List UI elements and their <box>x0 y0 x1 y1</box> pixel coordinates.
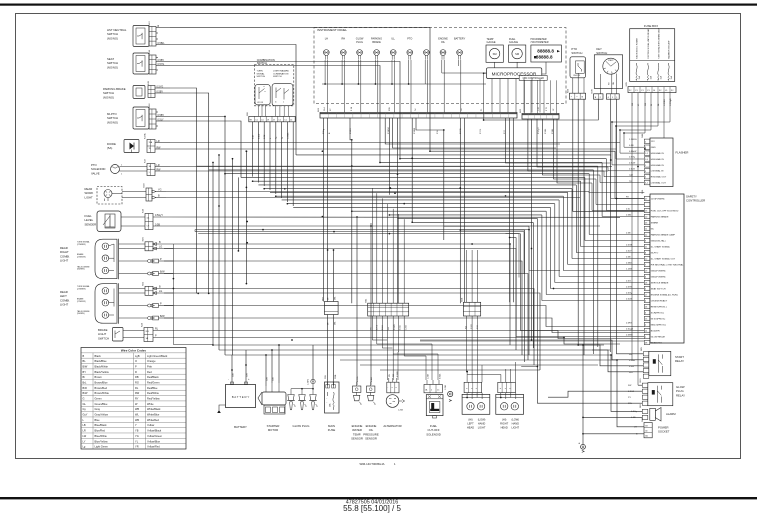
svg-text:YG: YG <box>135 434 139 438</box>
svg-text:J9: J9 <box>267 119 269 121</box>
wire battery plus drop <box>245 350 247 380</box>
indicator lamp ILL <box>390 38 396 60</box>
wire ground bus lines <box>195 230 560 278</box>
svg-text:N17A: N17A <box>144 133 147 139</box>
wire N01 drop 412 <box>411 118 413 222</box>
wire rear pto row <box>420 340 644 342</box>
svg-text:0.5B: 0.5B <box>629 145 634 147</box>
fuel gauge <box>509 38 526 62</box>
connector N01 (instrument panel harness) <box>318 107 517 118</box>
svg-text:LIGHT/HAZARD: LIGHT/HAZARD <box>273 70 289 73</box>
wire fuel gauge to microprocessor <box>516 62 518 68</box>
svg-text:1.25B: 1.25B <box>398 410 404 412</box>
wire N01 drop 513 <box>512 118 514 302</box>
svg-text:NC: NC <box>651 228 655 230</box>
svg-text:GND(POWER): GND(POWER) <box>651 270 666 272</box>
wire combo drop 2 <box>257 122 259 183</box>
svg-text:-: - <box>228 378 229 381</box>
fuel level sender B1 <box>85 208 173 231</box>
bottom border rule <box>0 497 757 499</box>
diode D1 (5A) <box>107 133 170 153</box>
wire pto solenoid RW row <box>170 170 608 172</box>
svg-text:12V(POWER): 12V(POWER) <box>651 198 665 200</box>
svg-text:RW: RW <box>388 327 390 330</box>
battery ground <box>217 405 225 413</box>
svg-text:LR: LR <box>83 429 86 433</box>
svg-text:(5W/8W): (5W/8W) <box>77 313 85 315</box>
svg-text:0.5WL: 0.5WL <box>439 374 441 379</box>
wire feed glow relay pin2 <box>521 366 537 368</box>
svg-text:RELAY: RELAY <box>676 393 685 397</box>
svg-text:C1: C1 <box>284 119 286 121</box>
svg-text:0.5WL: 0.5WL <box>400 325 402 330</box>
svg-text:H/SIGNAL IN: H/SIGNAL IN <box>651 152 664 155</box>
svg-text:Brown/White: Brown/White <box>95 391 110 395</box>
svg-text:FUEL CUT-OFF SOLENOID: FUEL CUT-OFF SOLENOID <box>651 210 679 212</box>
svg-text:1.25RL: 1.25RL <box>308 379 310 385</box>
rear work light E1 <box>85 183 167 204</box>
svg-text:2: 2 <box>431 389 432 391</box>
svg-text:RG: RG <box>135 380 139 384</box>
svg-text:GND(SIG-TAL): GND(SIG-TAL) <box>651 239 666 242</box>
svg-text:ALARM: ALARM <box>666 412 676 416</box>
power socket X1 <box>634 417 670 438</box>
svg-text:0.5GyY: 0.5GyY <box>538 127 540 134</box>
indicator lamp BATTERY <box>454 38 466 60</box>
svg-text:Br: Br <box>83 375 86 379</box>
svg-text:(21W/5W): (21W/5W) <box>77 301 86 303</box>
svg-text:SM: SM <box>493 52 497 56</box>
svg-text:LR: LR <box>157 164 160 167</box>
wire fuel sender sig row <box>172 216 620 218</box>
svg-text:0.5YG: 0.5YG <box>157 85 164 88</box>
svg-text:B: B <box>83 354 85 358</box>
wire water temp drop <box>356 330 358 385</box>
svg-text:L/SIGNAL OUT: L/SIGNAL OUT <box>651 182 667 185</box>
svg-text:GAUGE: GAUGE <box>509 41 518 44</box>
svg-text:ILL START SIGNAL OUT: ILL START SIGNAL OUT <box>651 257 676 260</box>
connector N02 <box>520 108 559 119</box>
svg-text:HEAD: HEAD <box>467 425 474 429</box>
wire bottom row 365 <box>360 364 598 366</box>
svg-text:Light Green/Black: Light Green/Black <box>147 354 168 358</box>
svg-text:(LOW): (LOW) <box>478 418 486 422</box>
svg-text:(LOW): (LOW) <box>511 418 519 422</box>
svg-text:(21W/8W): (21W/8W) <box>77 288 86 290</box>
wire N01 drop 465 <box>464 118 466 302</box>
wire bundle column 219 lower <box>218 155 220 350</box>
wire combi right row BW <box>164 274 528 361</box>
svg-text:(NO/NO): (NO/NO) <box>103 95 114 99</box>
svg-text:LIGHT: LIGHT <box>60 303 69 307</box>
wire pto switch drop 2 <box>577 99 579 345</box>
wire feed glow relay pin3 <box>537 367 642 404</box>
svg-text:Yellow: Yellow <box>147 423 154 427</box>
svg-text:HAND: HAND <box>512 421 519 425</box>
svg-text:FLASHER: FLASHER <box>676 151 689 155</box>
svg-text:SIGNAL: SIGNAL <box>257 72 266 75</box>
svg-text:LIGHT: LIGHT <box>511 425 519 429</box>
wire temp gauge to microprocessor <box>494 62 496 68</box>
hourmeter tachometer display <box>531 38 562 62</box>
svg-text:SENSOR: SENSOR <box>365 437 377 441</box>
svg-text:YR: YR <box>135 445 139 449</box>
svg-text:ALTERNATOR: ALTERNATOR <box>383 424 401 428</box>
svg-text:B A T T E R Y: B A T T E R Y <box>232 395 250 399</box>
svg-text:Green: Green <box>95 397 103 401</box>
wire combi left row BW <box>164 318 644 333</box>
wire N01 drop 397 <box>397 118 399 303</box>
svg-text:CRUISE READY: CRUISE READY <box>651 299 668 302</box>
wire combi right row P <box>164 261 522 355</box>
turn signal switch S9a <box>255 71 270 105</box>
wire main fuse drop 2 <box>333 315 335 386</box>
svg-text:B/W: B/W <box>83 364 88 368</box>
wire N01 drop 385 <box>385 118 560 144</box>
inline connector N04 <box>366 298 409 330</box>
svg-text:(NO/NO): (NO/NO) <box>107 120 118 124</box>
wire bundle column 246 lower <box>245 151 247 283</box>
svg-text:0.5RL: 0.5RL <box>545 128 547 134</box>
wire brake switch P row <box>170 338 620 345</box>
svg-text:HAZARD/FUSE LAMP: HAZARD/FUSE LAMP <box>668 40 671 59</box>
svg-text:SENDER: SENDER <box>85 222 97 226</box>
wire glow plug feed <box>312 345 314 379</box>
svg-text:OIL: OIL <box>441 41 446 44</box>
combination switch assembly S9 (dashed) <box>254 58 293 106</box>
wire pto switch drop 3 <box>583 99 585 355</box>
svg-text:2 1B: 2 1B <box>351 106 353 111</box>
svg-text:Green/Blue: Green/Blue <box>95 402 108 406</box>
wire HST neutral B run <box>170 28 430 152</box>
lamp feed wires inside panel <box>328 60 487 113</box>
svg-text:LY: LY <box>83 439 86 443</box>
wire seat switch YG run <box>170 66 380 163</box>
svg-text:0.5YG: 0.5YG <box>357 376 359 382</box>
svg-text:0.5RY: 0.5RY <box>626 323 633 325</box>
svg-text:C1: C1 <box>279 119 281 121</box>
svg-text:0.5YL: 0.5YL <box>480 128 482 134</box>
wire ground bus B to socket <box>583 433 644 435</box>
rear left combi light E3 <box>60 281 173 324</box>
svg-text:RW: RW <box>393 374 395 377</box>
svg-text:0.5BY: 0.5BY <box>158 59 165 62</box>
wire flasher pin feeds <box>592 167 644 211</box>
wire N04 lower fanout <box>372 316 438 380</box>
wire combi right row LG <box>164 249 516 351</box>
indicator lamp PTO <box>407 38 413 60</box>
svg-text:BATTERY: BATTERY <box>234 425 247 429</box>
switch S1 HST NEUTRAL SWITCH (NO/NO) <box>107 21 170 47</box>
svg-text:30R: 30R <box>266 377 268 381</box>
wire main fuse drop 1 <box>327 315 329 386</box>
svg-text:LgB: LgB <box>135 354 140 358</box>
svg-text:RL: RL <box>135 386 139 390</box>
wire bundle column 213 lower <box>212 162 214 345</box>
svg-text:Blue/Black: Blue/Black <box>95 423 108 427</box>
wire N02 drop 528 <box>528 119 604 171</box>
temp gauge <box>486 38 503 62</box>
svg-text:0.5Gy: 0.5Gy <box>629 157 636 159</box>
svg-text:SOCKET: SOCKET <box>658 430 670 434</box>
wire main fuse upper 2 <box>333 250 335 302</box>
engine oil pressure switch S8 <box>363 376 379 440</box>
wire bundle column 208 lower <box>208 170 210 293</box>
svg-text:SOLENOID/IGC POWER: SOLENOID/IGC POWER <box>637 38 639 59</box>
wire combo drop 4 <box>269 122 271 190</box>
wire fuse f2 to glow relay <box>638 384 642 386</box>
svg-text:GL: GL <box>83 402 87 406</box>
fuel cut-off solenoid Y1 <box>424 373 453 436</box>
svg-text:BrR: BrR <box>83 386 88 390</box>
svg-text:PLUG: PLUG <box>356 41 363 44</box>
svg-text:Yellow/Black: Yellow/Black <box>147 429 162 433</box>
wire combo drop 3 <box>263 122 265 186</box>
svg-text:R/SIGNAL OUT: R/SIGNAL OUT <box>651 176 667 179</box>
start relay K2 <box>629 346 684 378</box>
wire N04 upper feeds <box>372 188 404 303</box>
wire feed alarm Gy <box>611 355 642 411</box>
wire diode RW row <box>170 148 616 150</box>
glow plugs R1-R3 <box>287 379 317 428</box>
svg-text:SWITCH: SWITCH <box>571 51 582 55</box>
svg-text:1.25B: 1.25B <box>445 384 447 390</box>
svg-text:Red/White: Red/White <box>147 391 159 395</box>
safety controller U1 <box>642 189 705 345</box>
connector N01 pin labels <box>324 106 555 111</box>
svg-text:3RL: 3RL <box>335 322 337 325</box>
left head light E4 <box>462 382 490 429</box>
wire mi-pto LY run <box>170 121 241 177</box>
svg-text:R: R <box>135 370 137 374</box>
svg-text:0.9BrW: 0.9BrW <box>629 150 637 153</box>
wire parking brake YG run <box>170 88 197 166</box>
svg-text:LG: LG <box>159 290 162 293</box>
wire key switch ST drop <box>615 99 643 354</box>
wire pto solenoid LR row <box>170 166 612 168</box>
svg-text:GAUGE: GAUGE <box>487 41 496 44</box>
svg-text:LIGHT: LIGHT <box>60 259 69 263</box>
svg-text:0.5RW: 0.5RW <box>414 128 416 134</box>
svg-text:Red/Blue: Red/Blue <box>147 386 158 390</box>
svg-text:Red/Green: Red/Green <box>147 380 160 384</box>
svg-text:12V: 12V <box>651 141 655 143</box>
inline connector N03 <box>322 296 338 325</box>
svg-text:YG: YG <box>158 189 162 192</box>
indicator lamp ENGOIL <box>438 38 448 60</box>
safety controller wire labels <box>626 197 633 337</box>
wire combi right row B <box>173 244 510 345</box>
svg-text:(5W/8W): (5W/8W) <box>77 269 85 271</box>
svg-text:LR: LR <box>157 140 160 143</box>
svg-text:P: P <box>135 364 137 368</box>
instrument panel enclosure (dashed) <box>314 28 566 104</box>
svg-text:HEAD: HEAD <box>501 425 508 429</box>
svg-text:88888.8: 88888.8 <box>536 55 553 60</box>
main fuse F5 <box>325 373 340 432</box>
svg-text:W96-14CT0005HJA: W96-14CT0005HJA <box>359 462 384 466</box>
wire key switch B drop <box>484 99 599 120</box>
svg-text:REAR PTO: REAR PTO <box>651 341 662 344</box>
wire color codes table <box>81 348 186 450</box>
connector N12 (combination switch) <box>247 111 295 121</box>
svg-text:CBC CONTROLLER: CBC CONTROLLER <box>523 78 545 80</box>
svg-text:GND: GND <box>651 147 656 149</box>
svg-text:SEAT SW TCH: SEAT SW TCH <box>651 287 666 290</box>
svg-text:BRAKE: BRAKE <box>372 41 381 44</box>
wire hourmeter to microprocessor <box>542 62 546 74</box>
wire fuel sender gnd row <box>172 225 600 227</box>
svg-text:BY: BY <box>83 370 87 374</box>
brake light switch S5 <box>98 322 170 341</box>
indicator lamp SPARE <box>424 50 430 60</box>
svg-text:SCR(PROG.): SCR(PROG.) <box>651 312 664 314</box>
svg-text:PARKING BRAKE: PARKING BRAKE <box>651 215 669 218</box>
wire N01 drop 461 <box>459 118 461 303</box>
top border rule <box>0 4 757 6</box>
svg-text:NBD-II(PROG.): NBD-II(PROG.) <box>651 324 666 326</box>
svg-text:1.25RG: 1.25RG <box>629 139 637 141</box>
indicator lamp PARKBRAKE <box>371 38 382 60</box>
wire N01 drop 350 <box>350 118 352 140</box>
svg-text:VALVE: VALVE <box>91 171 100 175</box>
N01 wire gauge labels <box>323 127 554 134</box>
svg-text:SM: SM <box>515 52 519 56</box>
wire N01 drop 351 long <box>351 140 353 303</box>
svg-text:Black: Black <box>95 354 102 358</box>
svg-text:0.5LB: 0.5LB <box>371 376 373 382</box>
fuse box F1-F4 <box>630 24 675 82</box>
wire parking brake BY run <box>170 93 209 170</box>
svg-text:O: O <box>135 359 137 363</box>
svg-text:(NO/NO): (NO/NO) <box>107 36 118 40</box>
starter motor M1 <box>258 377 286 432</box>
svg-text:ENGINE SIGNAL(ILL RUN): ENGINE SIGNAL(ILL RUN) <box>651 293 678 296</box>
svg-text:7d: 7d <box>415 109 417 111</box>
svg-text:ILL START SIGNAL: ILL START SIGNAL <box>651 245 671 248</box>
svg-text:3RL: 3RL <box>335 297 337 300</box>
wire water temp upper <box>356 217 358 330</box>
wire N02 drop 531 <box>531 119 533 340</box>
svg-text:WL: WL <box>135 413 139 417</box>
engine water temp sensor B2 <box>351 376 363 440</box>
svg-text:INSTRUMENT PANEL: INSTRUMENT PANEL <box>317 28 347 32</box>
svg-text:Black/Blue: Black/Blue <box>95 359 108 363</box>
svg-text:0.5GyY: 0.5GyY <box>155 214 163 217</box>
microprocessor U10 <box>487 68 542 79</box>
switch S3 PARKING BRAKE SWITCH (NO/NO) <box>103 80 170 99</box>
svg-text:0.5WB: 0.5WB <box>394 324 396 330</box>
svg-text:LEFT: LEFT <box>467 421 474 425</box>
wire oil pressure drop <box>370 335 372 385</box>
wire combo drop 1 <box>252 122 254 177</box>
fuse box output wire labels <box>632 98 672 106</box>
wire bottom row 350 <box>219 349 610 351</box>
svg-text:Blue/White: Blue/White <box>95 434 108 438</box>
wire bottom row 355 <box>225 354 611 356</box>
wire fuse f1 to start relay <box>632 359 643 361</box>
svg-text:Yellow/Green: Yellow/Green <box>147 434 163 438</box>
indicator lamp RH <box>340 38 346 60</box>
svg-text:TURN: TURN <box>257 71 263 73</box>
svg-text:RW: RW <box>465 326 467 329</box>
svg-text:Yellow/Blue: Yellow/Blue <box>147 439 161 443</box>
wire N01 drop 416 <box>416 118 444 240</box>
wire feed socket LR <box>617 360 644 427</box>
CBC controller module <box>519 76 547 81</box>
svg-text:RB: RB <box>135 375 139 379</box>
svg-text:SPARE: SPARE <box>651 221 659 224</box>
svg-text:SWITCH: SWITCH <box>257 76 266 78</box>
wire N01 drop 393 <box>393 118 556 148</box>
wire mi-pto BY run <box>170 117 225 174</box>
svg-text:RY: RY <box>135 397 139 401</box>
svg-text:88888.8: 88888.8 <box>537 48 554 53</box>
battery G1 <box>226 373 256 429</box>
ground bus vertical with ring terminal <box>579 344 585 452</box>
svg-text:G: G <box>83 397 85 401</box>
wire start relay feed 1 <box>532 340 633 360</box>
svg-text:SWITCH: SWITCH <box>98 336 109 340</box>
svg-text:GLOW PLUG: GLOW PLUG <box>293 424 310 428</box>
wire key switch ACC drop <box>611 99 645 198</box>
wire starter feed 2 <box>271 350 273 383</box>
svg-text:White/Blue: White/Blue <box>147 413 160 417</box>
svg-text:PARKING BRAKE LAMP: PARKING BRAKE LAMP <box>651 233 676 236</box>
svg-text:RIGHT: RIGHT <box>500 421 508 425</box>
svg-text:Blue/Yellow: Blue/Yellow <box>95 439 108 443</box>
flasher unit K1 <box>642 133 688 187</box>
svg-text:ON/OFF: ON/OFF <box>573 75 581 77</box>
svg-text:Red/Black: Red/Black <box>147 375 159 379</box>
svg-text:TURN SIGNAL/HORN, BRAKE LAMP: TURN SIGNAL/HORN, BRAKE LAMP <box>657 27 660 59</box>
svg-text:Red/Yellow: Red/Yellow <box>147 397 160 401</box>
svg-text:(HI): (HI) <box>502 418 506 422</box>
svg-text:LgB: LgB <box>629 174 633 176</box>
svg-text:FUSE: FUSE <box>328 428 336 432</box>
svg-text:Y: Y <box>135 423 137 427</box>
svg-text:SWITCH: SWITCH <box>273 76 282 78</box>
wire N01 drop 505 <box>506 118 611 163</box>
svg-text:0.5LY: 0.5LY <box>158 118 164 121</box>
alternator G2 <box>383 371 404 428</box>
svg-text:H/SIGNAL IN: H/SIGNAL IN <box>651 164 664 167</box>
wire start relay feed 3 <box>592 350 643 372</box>
glow plug relay K3 <box>628 378 685 406</box>
wire combi left row Lg <box>164 306 644 327</box>
wire N01 drop 509 <box>509 118 511 302</box>
svg-text:Black/White: Black/White <box>95 364 109 368</box>
wire start relay feed 2 <box>578 345 643 366</box>
N12 wire labels <box>253 132 290 139</box>
svg-text:White: White <box>147 402 154 406</box>
wire brake switch RL row <box>170 331 644 339</box>
svg-text:START: START <box>608 59 613 62</box>
svg-text:SENSOR: SENSOR <box>351 437 363 441</box>
svg-text:Blue: Blue <box>95 418 101 422</box>
inline connector N07 <box>461 297 480 329</box>
wire combi left row B <box>173 289 534 366</box>
wire starter feed 1 <box>265 355 267 386</box>
svg-text:(5A): (5A) <box>107 146 112 150</box>
svg-text:RH: RH <box>341 38 345 41</box>
svg-text:C1: C1 <box>261 119 263 121</box>
svg-text:HAND: HAND <box>478 421 485 425</box>
key switch S7 <box>592 47 623 99</box>
svg-text:RESET(PROG.): RESET(PROG.) <box>651 306 667 308</box>
svg-text:LIGHT: LIGHT <box>478 425 486 429</box>
svg-text:(HI): (HI) <box>468 418 472 422</box>
